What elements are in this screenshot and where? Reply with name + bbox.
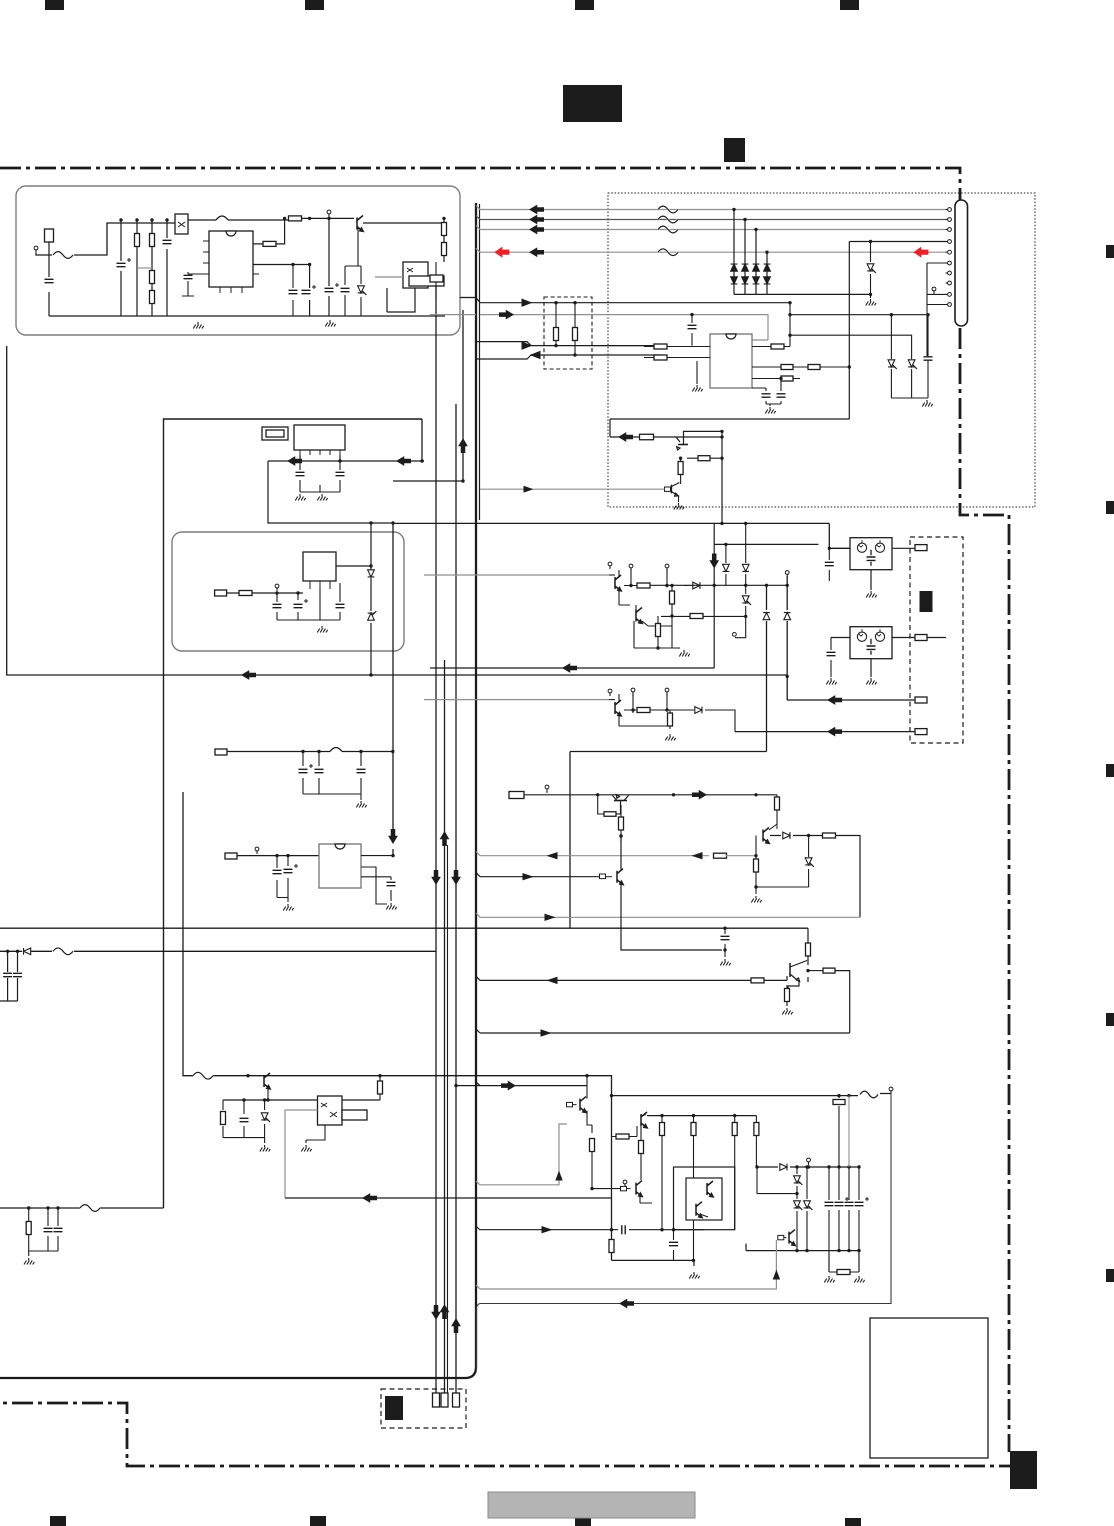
bus pin box C	[453, 1393, 460, 1407]
fan wire 3	[476, 226, 946, 233]
black sq conn	[920, 591, 933, 612]
reg out wire	[336, 564, 373, 567]
zener q21	[805, 836, 814, 888]
VCO module 1	[850, 538, 892, 570]
cap lad1	[825, 1167, 834, 1251]
wire pc1 to line	[119, 218, 288, 221]
transistor QB	[665, 483, 680, 497]
registration mark right 4	[1106, 1013, 1114, 1026]
diode q12	[695, 707, 702, 714]
clusterA wire	[227, 750, 394, 753]
vcc rail2	[325, 218, 340, 316]
small box j2	[430, 275, 443, 282]
clusterA caps	[299, 752, 367, 808]
if wires left	[592, 346, 644, 355]
corner marker square	[1010, 1451, 1037, 1489]
wire y417 loop	[610, 419, 849, 437]
qb gnd	[674, 496, 684, 510]
wire y544	[714, 523, 818, 546]
wire y1260	[612, 1260, 700, 1278]
wire y314 black	[790, 313, 928, 356]
q12 net	[619, 694, 735, 741]
q31 wire top	[645, 1114, 756, 1117]
arrow ic2 a	[288, 457, 302, 465]
long wire y928	[0, 927, 808, 929]
inner block outline	[164, 419, 423, 1208]
registration mark bottom 2	[310, 1516, 326, 1526]
resistor line R	[289, 216, 302, 221]
grey link	[137, 267, 152, 269]
harness trunk parallel line	[479, 204, 481, 520]
IC4 box	[319, 844, 361, 888]
res between gnd	[824, 1270, 864, 1283]
trunk bevel y855	[476, 852, 480, 856]
reg IC3	[303, 552, 336, 589]
grey wire in q10	[424, 574, 609, 576]
wire y1095	[612, 1087, 893, 1098]
vco1 cap	[825, 548, 834, 581]
wire y1198	[285, 1194, 612, 1202]
res row 1	[660, 1116, 665, 1232]
res row 2	[691, 1116, 696, 1263]
if right r1	[752, 344, 790, 349]
rcz group	[221, 1100, 271, 1152]
thick arrow y314	[500, 311, 514, 319]
registration mark top 3	[575, 0, 594, 10]
section marker square	[724, 138, 745, 162]
transistor Q31	[612, 1112, 648, 1139]
grey wire pc2	[375, 276, 403, 278]
vert x766	[570, 584, 770, 929]
vert x777	[775, 795, 780, 823]
diode pair 3	[753, 264, 760, 284]
IF IC box	[710, 334, 752, 388]
wire x808 q23	[806, 928, 811, 982]
note box	[870, 1318, 988, 1458]
ic2 wires	[268, 455, 424, 525]
ic1 fb wire	[253, 263, 311, 316]
q30 emitter	[267, 1089, 269, 1100]
conn box q20	[509, 792, 524, 799]
if out caps	[752, 377, 786, 414]
dashed connector box bottom	[381, 1389, 466, 1428]
pc3 grey in	[285, 1110, 318, 1198]
cap c7	[341, 227, 367, 316]
arrow on y675	[242, 671, 256, 679]
transistor Q30	[214, 1073, 270, 1089]
res x611 low	[609, 1240, 614, 1253]
transistor Q32	[621, 1180, 643, 1197]
bus wire A vertical	[435, 282, 437, 1395]
gnd rail2	[325, 320, 335, 327]
wire pill y304	[927, 304, 946, 306]
ic1 left cap	[182, 272, 209, 296]
qa res vert	[678, 457, 683, 485]
fan arrow 3	[530, 226, 544, 234]
vert x790	[788, 301, 791, 347]
conn stub3	[915, 697, 927, 703]
res row 3	[732, 1116, 737, 1230]
q11 net	[619, 586, 746, 657]
q22 net	[619, 834, 722, 950]
vert x611	[610, 1094, 613, 1261]
vert x722	[720, 431, 723, 523]
bus wire C vertical	[455, 404, 457, 1395]
red arrow right	[914, 247, 928, 257]
cap x673	[669, 1228, 678, 1260]
transistor Q21	[763, 823, 777, 844]
q20 resistor	[619, 805, 624, 842]
cap c3	[163, 220, 172, 316]
y1208 caps	[29, 1208, 63, 1251]
arrow ic2 b	[397, 457, 411, 465]
IC4 wire in	[237, 847, 319, 857]
dashed box damper resistors	[544, 297, 592, 369]
IC4 conn box	[225, 853, 237, 859]
pin vcc1	[327, 210, 331, 218]
registration mark top 2	[305, 0, 324, 10]
diode array verticals	[732, 208, 768, 295]
wire j2 up	[435, 262, 437, 300]
arrow y355	[531, 352, 540, 359]
bus arrow up B1	[441, 832, 449, 846]
resistor r7	[442, 217, 447, 262]
switch transistor Q1	[357, 216, 363, 232]
q34 grey base	[476, 1240, 779, 1289]
bus arrow down A1	[432, 871, 440, 885]
qb grey base	[480, 486, 665, 492]
pill pin 3	[946, 228, 952, 232]
grey wire q33	[476, 1124, 567, 1185]
q12 pins	[608, 688, 669, 696]
q10 top pins	[608, 562, 669, 572]
arrow y437	[619, 433, 633, 441]
wire pill y294	[927, 287, 946, 294]
fan wire 2	[476, 216, 946, 223]
power supply block outline	[16, 186, 460, 335]
bus wire B vertical	[444, 660, 446, 1395]
transistor Q22	[600, 869, 624, 885]
photocoupler PC1	[175, 214, 188, 234]
trunk bevel y980	[476, 976, 480, 980]
nested box inner	[686, 1178, 722, 1220]
q32 wires	[590, 1125, 653, 1203]
inner transistor 1	[707, 1181, 713, 1197]
grey x849	[848, 1096, 850, 1167]
pill pin 5	[946, 250, 952, 254]
diode d20	[684, 582, 700, 589]
wire x183	[183, 792, 612, 1096]
q11	[636, 608, 642, 624]
wire block out1	[460, 297, 476, 299]
res row 4	[754, 1116, 759, 1167]
pill pin 10	[946, 303, 952, 307]
q10 resistor	[637, 583, 650, 588]
dotted enclosure (tuner front-end)	[608, 193, 1035, 507]
pc2 aux rect	[409, 276, 444, 286]
arrow x393 down	[389, 830, 397, 844]
wire y951 with diode	[0, 950, 436, 952]
ecap lad1	[835, 1167, 850, 1251]
wire y1208	[0, 1205, 164, 1212]
pill pin 6	[946, 261, 952, 265]
wire y1100	[223, 1098, 380, 1101]
left input caps	[0, 950, 22, 1001]
array bus ext	[767, 293, 871, 295]
pill pin 9	[946, 293, 952, 297]
red arrow left	[495, 247, 509, 257]
q21 base net	[751, 836, 808, 903]
wire y1193	[755, 1165, 797, 1193]
grey wire q12	[424, 699, 609, 701]
mains pin	[34, 246, 38, 253]
wire block out2	[430, 314, 476, 316]
reg caps	[273, 583, 345, 633]
wire pill y263	[927, 262, 946, 264]
wire y668	[430, 667, 714, 669]
squiggle mains	[53, 252, 73, 259]
pc3 gnd lead	[301, 1125, 325, 1152]
wire y302 trunk branch	[476, 298, 790, 303]
resistor r2	[135, 220, 140, 316]
registration mark top 4	[840, 0, 859, 10]
cap lad2	[845, 1167, 854, 1251]
bus wire D vertical	[462, 310, 464, 481]
wire pc2 bottom	[387, 288, 415, 312]
bus arrow down C1	[452, 871, 460, 885]
wire y1167	[756, 1158, 860, 1170]
reg conn box	[215, 590, 227, 596]
conn stub2	[915, 635, 927, 641]
qa resistor2	[687, 445, 722, 461]
vert x787	[784, 571, 791, 700]
if gnd left	[692, 361, 702, 392]
q23 collector r	[808, 968, 850, 1033]
wire y676 right part	[371, 674, 787, 676]
zener d11	[866, 242, 876, 306]
transistor Q33	[567, 1074, 593, 1125]
wire y523	[393, 522, 850, 550]
vert 849	[848, 242, 850, 420]
wire x422 stub	[420, 419, 423, 463]
IC4 right pins	[361, 854, 397, 910]
inner transistor 2	[696, 1202, 708, 1218]
conn stub4	[915, 729, 927, 735]
arrow y794	[693, 791, 707, 799]
dashed connector box right	[910, 537, 963, 743]
arrowD x714	[710, 544, 718, 668]
q31 emitter r	[639, 1126, 644, 1180]
y1208 res	[24, 1208, 34, 1265]
dash-dot border bottom	[0, 1403, 1020, 1466]
regulator block outline	[172, 532, 404, 651]
zener col 911	[908, 360, 917, 398]
ic1 out resistor	[253, 217, 286, 247]
power block bottom rail	[49, 315, 445, 317]
bus arrow up B2	[441, 1305, 449, 1319]
connector pill	[955, 200, 968, 326]
registration mark bottom 3	[575, 1518, 591, 1526]
pc3 aux rect	[342, 1110, 367, 1120]
wire y1229 branch	[476, 1225, 704, 1234]
arrow y302	[522, 299, 531, 306]
if right r3	[752, 376, 800, 381]
nested box outer	[674, 1167, 735, 1230]
wire y731	[735, 728, 915, 736]
footer grey bar	[488, 1492, 695, 1518]
cap col 927	[924, 263, 933, 398]
bus wire B2 vertical	[447, 845, 449, 1393]
ferrite bead	[216, 216, 228, 220]
fan wire 4	[476, 248, 946, 255]
wire y355 damper	[476, 355, 660, 359]
grey x891 return	[477, 1094, 892, 1370]
registration mark top 1	[45, 0, 64, 10]
damper resistor 1	[554, 301, 559, 347]
wire fuse to cap	[48, 242, 50, 316]
wire y794	[524, 785, 777, 796]
black square bottom connector	[385, 1396, 403, 1420]
transistor Q34	[746, 1230, 795, 1246]
diode col 725	[723, 544, 730, 585]
clusterA bead	[330, 748, 342, 752]
diode pair 1	[731, 264, 738, 284]
zener lad2	[804, 1165, 813, 1250]
diode dreg1	[368, 522, 377, 677]
trunk bevel y876	[476, 873, 480, 877]
wire y876 in	[480, 874, 599, 880]
fan arrow 2	[530, 216, 544, 224]
bus arrow up D1	[459, 439, 467, 453]
resistor r3	[150, 220, 155, 316]
if ic left resistors	[644, 344, 710, 360]
cap c5	[289, 263, 317, 316]
vco2 cap	[826, 638, 836, 685]
photocoupler PC2	[403, 262, 428, 288]
wire y481	[393, 479, 465, 482]
fan arrow 1	[530, 206, 544, 214]
fuse	[45, 229, 54, 242]
resistor y437	[640, 434, 654, 440]
prot bus 398	[891, 398, 932, 407]
control IC1	[203, 231, 259, 293]
diode pair 4	[764, 264, 771, 284]
transistor Q20 pnp	[598, 795, 629, 817]
damper resistor 2	[573, 301, 578, 357]
wire y314 grey	[480, 315, 768, 340]
wire y345 damper	[476, 342, 660, 346]
wire y1033	[476, 1029, 850, 1036]
ic1 gnd	[193, 322, 203, 329]
vert x393	[391, 521, 394, 855]
pill pin 2	[946, 218, 952, 222]
res x839 top	[833, 1096, 845, 1167]
arrow on y668	[563, 664, 577, 672]
IC2 box	[294, 425, 345, 455]
title block	[563, 85, 622, 122]
pill pin 8	[946, 281, 952, 285]
cap c2	[117, 220, 132, 316]
pill pin 7	[946, 271, 952, 275]
zener col 891	[888, 315, 897, 398]
cap y936	[720, 927, 730, 966]
registration mark bottom 1	[50, 1516, 66, 1526]
reg resistor	[227, 584, 303, 595]
q23 base	[480, 976, 793, 1015]
zener lad1	[794, 1167, 803, 1251]
registration mark right 2	[1106, 501, 1114, 514]
wire y437	[610, 430, 724, 439]
wire to transistor	[302, 217, 444, 223]
registration mark bottom 4	[845, 1518, 861, 1526]
wire y335	[790, 335, 912, 359]
conn stub1	[915, 545, 927, 551]
wire y1085	[454, 1082, 587, 1090]
dash-dot border top/right	[0, 168, 1009, 1452]
transistor QA	[676, 431, 722, 450]
bus arrow up C2	[452, 1319, 460, 1333]
resistor x380	[378, 1074, 383, 1100]
transistor Q10	[609, 575, 621, 591]
registration mark right 3	[1106, 764, 1114, 777]
bus pin box B	[441, 1393, 448, 1407]
bus pin box A	[433, 1393, 440, 1407]
arrow y1303	[620, 1300, 634, 1308]
IC4 caps	[273, 856, 299, 911]
ecap lad2	[855, 1167, 870, 1251]
fan arrow 4	[530, 248, 544, 256]
registration mark right 1	[1106, 245, 1114, 258]
clusterA conn box	[215, 749, 227, 755]
wire y241	[849, 240, 946, 243]
wire y675 long	[7, 346, 371, 675]
diode on y951	[24, 948, 31, 955]
VCO module 2	[850, 627, 892, 659]
bus y1250	[746, 1244, 861, 1272]
if right r2	[752, 365, 851, 370]
arrow y345	[522, 342, 531, 349]
diode col 745	[733, 523, 752, 637]
crystal X1	[262, 427, 288, 440]
pill pin 1	[946, 208, 952, 212]
ic2 caps	[295, 461, 344, 501]
board outline right edge / harness trunk	[0, 203, 476, 1378]
wire y918 grey	[480, 914, 860, 920]
trunk bevel y918	[476, 913, 480, 917]
squiggle y951	[53, 948, 73, 955]
cap input	[45, 279, 54, 282]
fan wire 1	[476, 206, 946, 213]
transistor Q23	[788, 961, 810, 991]
vco1 wires	[866, 548, 915, 597]
q21 wire	[770, 832, 860, 917]
registration mark right 5	[1106, 1269, 1114, 1282]
optocoupler PC3	[318, 1096, 343, 1125]
wire y855 grey	[480, 853, 756, 859]
q10 net	[619, 570, 787, 587]
if cap in	[688, 313, 697, 346]
wire y700	[787, 696, 915, 704]
wire mains input	[36, 223, 175, 255]
transistor Q12	[609, 700, 621, 716]
bus arrow down A2	[432, 1306, 440, 1320]
diode pair 2	[742, 264, 749, 284]
vco2 wires	[831, 638, 946, 685]
pill pin 4	[946, 240, 952, 244]
